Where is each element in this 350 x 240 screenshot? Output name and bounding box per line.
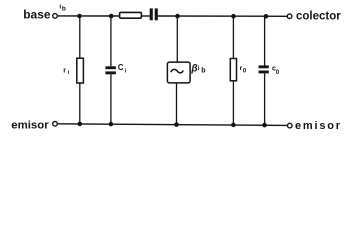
capacitor C_0 [259,65,269,73]
resistor r_0 [230,59,236,81]
resistor (series, top rail) [120,12,142,18]
sine symbol inside source [171,69,183,73]
wire top rail: series capacitor to colector terminal [158,15,288,17]
junction bottom B (C_i branch) [109,122,114,127]
label c_0 [272,66,280,77]
junction bottom E (C_0 branch) [262,123,267,128]
svg-text:base: base [23,8,51,22]
wire branch C_i lower [110,74,112,124]
junction top E (C_0 branch) [264,14,269,19]
junction top B (C_i branch) [109,14,114,19]
terminal emisor right [288,123,293,128]
wire branch C_i upper [110,16,112,67]
svg-text:b: b [201,68,205,75]
wire top rail: base terminal to series resistor [58,15,120,17]
label r_i [63,67,69,76]
junction top C (source branch) [175,14,180,19]
terminal emisor left [53,122,58,127]
capacitor (series, top rail) [150,8,158,20]
wire branch C_0 lower [264,73,266,125]
junction top A (r_i branch) [77,14,82,19]
label C_i [118,63,127,74]
wire branch C_0 upper [264,16,266,65]
terminal base [53,14,58,19]
svg-text:emisor: emisor [295,120,342,132]
current source U1 (box) [167,62,190,83]
label i_b [59,4,66,13]
junction top D (r_0 branch) [231,14,236,19]
wire branch r_0 lower [232,81,234,125]
wire branch source upper [176,16,178,62]
svg-text:β: β [190,64,197,75]
wire bottom rail [58,124,288,126]
svg-text:colector: colector [296,11,341,23]
svg-text:emisor: emisor [11,120,49,132]
resistor r_i [77,58,84,83]
junction bottom A (r_i branch) [78,122,83,127]
wire branch r_0 upper [232,16,234,59]
junction bottom C (source branch) [174,122,179,127]
svg-text:C: C [118,63,124,72]
wire branch r_i lower [79,83,81,124]
label r_0 [240,65,247,75]
wire branch source lower [176,83,178,125]
wire top rail: series resistor to series capacitor [141,15,150,17]
svg-text:r: r [63,67,66,74]
svg-text:b: b [62,6,66,13]
terminal colector [287,14,292,19]
wire branch r_i upper [79,16,81,59]
capacitor C_i [105,66,116,74]
junction bottom D (r_0 branch) [231,123,236,128]
